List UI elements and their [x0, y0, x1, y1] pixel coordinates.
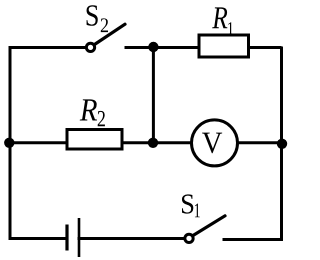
label R2 letter R	[80, 99, 97, 120]
label R2 subscript 2	[98, 111, 105, 126]
wire middle row horizontal (left node through R2 and voltmeter to right node)	[9, 141, 282, 144]
resistor R1	[199, 35, 249, 57]
node junction dot middle left	[4, 138, 14, 148]
wire top-right horizontal (S2 gap through node to R1 and right corner)	[126, 46, 280, 49]
switch S1 contact circle	[185, 234, 193, 242]
voltmeter V	[192, 120, 238, 166]
label S1 letter S	[182, 194, 193, 213]
voltmeter letter V	[202, 133, 222, 154]
wire top-left horizontal (corner to S2)	[10, 46, 86, 49]
label R1 subscript 1	[228, 22, 233, 34]
wire bottom-right horizontal (S1 gap to right corner)	[224, 238, 282, 241]
wire left vertical	[9, 48, 12, 239]
resistor R2	[67, 130, 122, 150]
label S1 subscript 1	[195, 204, 200, 218]
battery positive long plate	[78, 218, 81, 257]
wire right vertical	[280, 48, 283, 239]
wire middle vertical (node under S2-R1 wire down to middle row)	[152, 47, 155, 143]
switch S1 arm	[193, 216, 225, 236]
battery negative short plate	[65, 225, 68, 251]
switch S2 contact circle	[86, 43, 94, 51]
label S2 letter S	[87, 5, 98, 26]
node junction dot middle center	[148, 138, 158, 148]
wire bottom battery-to-S1 horizontal	[79, 237, 186, 240]
label R1 letter R	[212, 7, 227, 28]
switch S2 arm	[95, 24, 126, 44]
label S2 subscript 2	[101, 18, 108, 32]
node junction dot top middle	[148, 42, 158, 52]
node junction dot middle right	[277, 139, 287, 149]
wire bottom-left horizontal (corner to battery)	[10, 237, 67, 240]
